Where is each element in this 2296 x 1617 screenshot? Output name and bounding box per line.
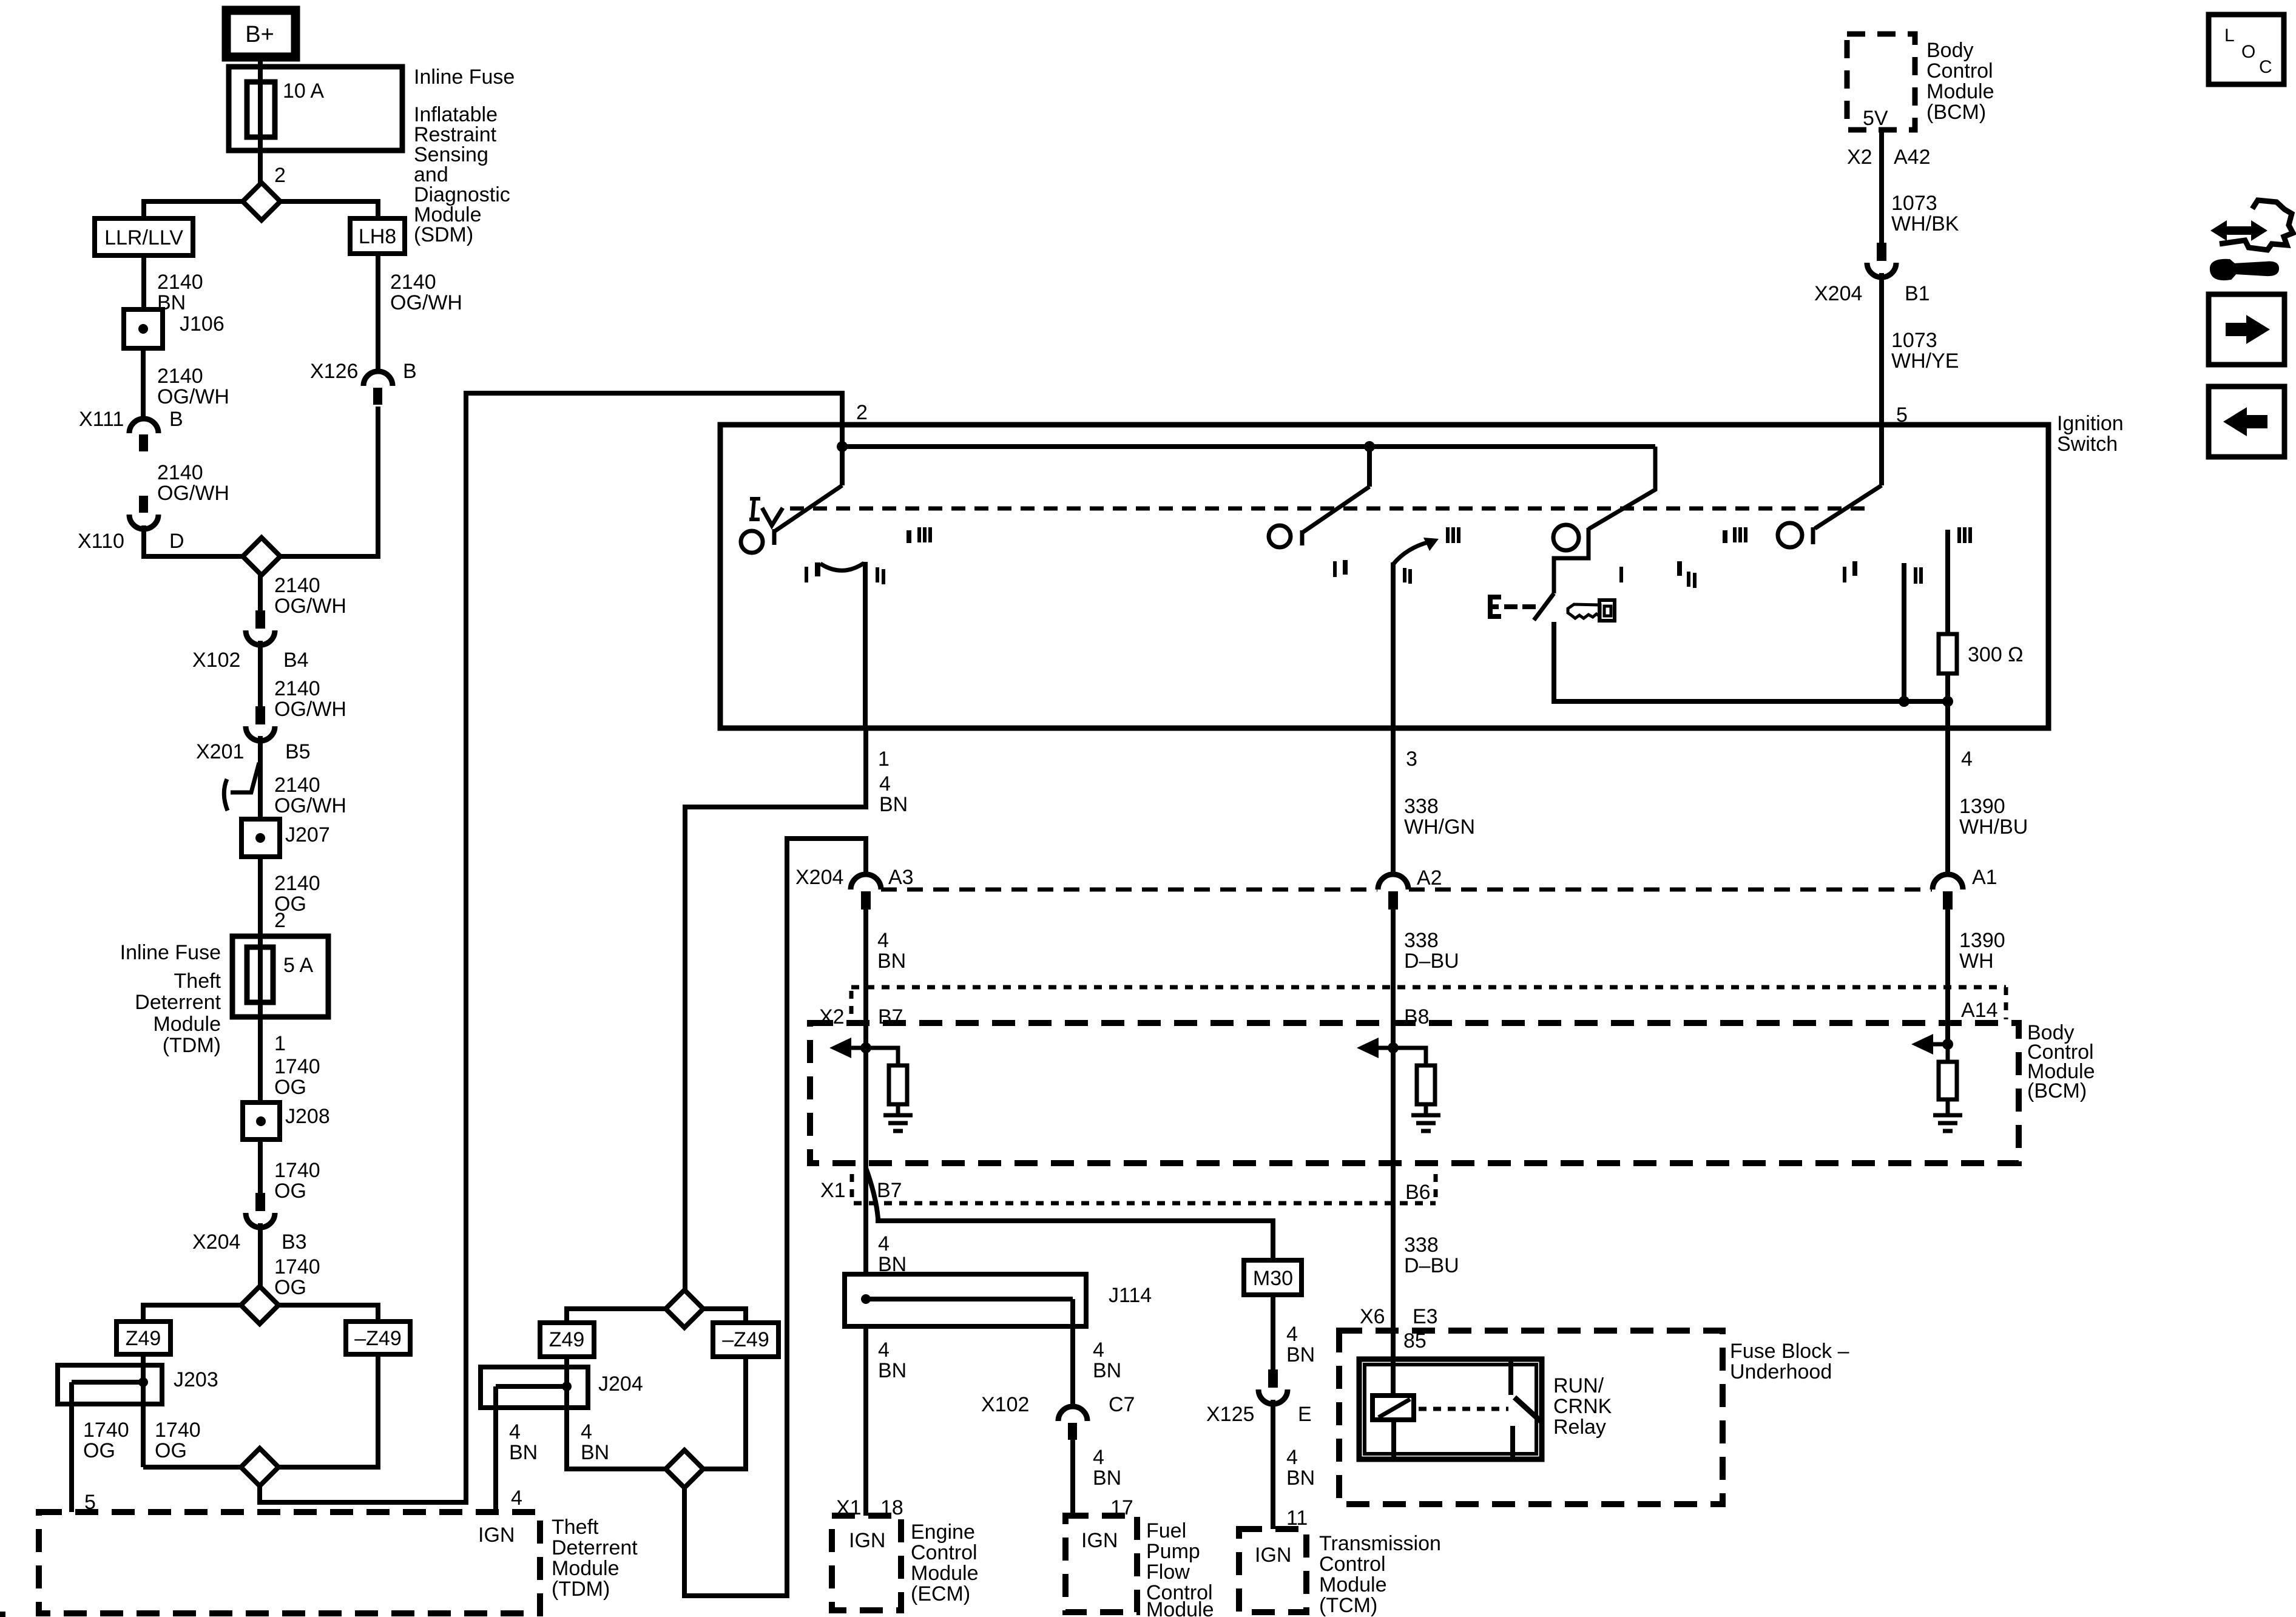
wire -Z49 to splice S4	[279, 1354, 378, 1467]
svg-text:WH/YE: WH/YE	[1891, 349, 1959, 373]
svg-text:BN: BN	[878, 1359, 907, 1382]
resistor marks I III	[1957, 527, 1972, 543]
pole 4 contact circle	[1778, 523, 1802, 547]
svg-text:(ECM): (ECM)	[911, 1582, 970, 1605]
connector line X204	[881, 888, 1932, 892]
splice J207	[241, 819, 280, 857]
label Transmission Control Module (TCM)	[1319, 1532, 1441, 1617]
label Theft Deterrent Module (TDM) fuse	[135, 970, 221, 1057]
svg-text:Deterrent: Deterrent	[135, 991, 221, 1014]
svg-text:B+: B+	[245, 22, 274, 47]
label 4 BN below A3	[877, 929, 906, 973]
pole 1 blade	[774, 447, 842, 545]
svg-text:OG/WH: OG/WH	[274, 794, 346, 817]
svg-text:X1: X1	[820, 1179, 846, 1202]
svg-text:LH8: LH8	[359, 225, 396, 248]
svg-text:J204: J204	[598, 1372, 643, 1396]
splice S6	[666, 1450, 703, 1488]
svg-text:(TDM): (TDM)	[552, 1578, 610, 1601]
svg-text:Z49: Z49	[126, 1327, 161, 1350]
pin label 2 TDM fuse	[274, 909, 286, 932]
svg-text:X201: X201	[196, 740, 244, 763]
label X110 D	[78, 530, 184, 553]
label 4 BN tap	[509, 1420, 538, 1464]
wire M30 to X125	[1271, 1295, 1275, 1369]
label X125 E	[1206, 1403, 1312, 1426]
svg-text:J207: J207	[285, 823, 330, 846]
splice S3	[241, 1286, 279, 1324]
label 338 D-BU	[1404, 929, 1459, 973]
junction pole 4 output	[1899, 696, 1909, 707]
connector X125 pin E	[1258, 1369, 1288, 1404]
svg-text:L: L	[2224, 25, 2235, 46]
label J208	[285, 1105, 330, 1128]
svg-text:OG: OG	[155, 1439, 187, 1462]
svg-text:X204: X204	[795, 866, 843, 889]
svg-text:A14: A14	[1961, 999, 1998, 1022]
label 338 D-BU relay feed	[0, 0, 1, 1]
connector X204 pin B3	[246, 1193, 275, 1227]
page mark bottom left	[0, 1612, 5, 1617]
label 338 WH/GN	[1404, 795, 1475, 839]
pin label 5	[1896, 403, 1908, 427]
svg-text:BN: BN	[1093, 1359, 1121, 1382]
connector line X2	[851, 987, 2006, 1019]
svg-text:Module: Module	[1319, 1573, 1387, 1596]
wire Z49 through J204	[567, 1357, 666, 1469]
label X204 B1	[1814, 282, 1930, 305]
label A2	[1417, 866, 1442, 890]
label 1390 WH/BU	[1959, 795, 2028, 839]
wire B+ to fuse	[258, 57, 263, 183]
label Body Control Module (BCM)	[2027, 1021, 2095, 1102]
takeout Z49	[116, 1322, 171, 1354]
switch contact below X201	[224, 763, 259, 811]
module box Fuel Pump Flow Control Module	[1065, 1516, 1137, 1612]
svg-text:OG: OG	[274, 1076, 306, 1099]
label 5 A	[283, 954, 313, 977]
svg-text:OG: OG	[274, 1180, 306, 1203]
wire pole 2 to pin 3	[1391, 562, 1396, 728]
wire J207 to TDM fuse	[258, 857, 263, 936]
pin label 2	[274, 164, 286, 187]
label IGN TCM	[1255, 1544, 1291, 1567]
splice M30 box	[1244, 1260, 1302, 1295]
label RUN/CRNK Relay	[1553, 1374, 1612, 1439]
connector X204 pin A3	[851, 874, 881, 910]
connector line X1	[852, 1174, 1436, 1203]
svg-text:1740: 1740	[274, 1159, 320, 1182]
svg-text:Module: Module	[153, 1013, 221, 1036]
BCM B7 resistor to ground	[866, 1048, 907, 1115]
icon vehicle harness	[2210, 200, 2293, 279]
label 1740 OG tap	[83, 1419, 129, 1462]
power feed node B+	[226, 10, 295, 57]
svg-text:B4: B4	[283, 649, 309, 672]
label J106	[180, 312, 225, 336]
svg-text:Body: Body	[1926, 39, 1974, 62]
pin label 3 below switch	[1406, 748, 1417, 771]
connector X201 pin B5	[246, 706, 275, 741]
label Inline Fuse (SDM)	[414, 66, 515, 246]
legend box LOC	[2209, 15, 2284, 84]
svg-text:X125: X125	[1206, 1403, 1254, 1426]
svg-text:4: 4	[878, 1338, 890, 1362]
svg-text:O: O	[2241, 42, 2255, 62]
svg-text:Relay: Relay	[1553, 1416, 1606, 1439]
svg-text:2: 2	[274, 909, 286, 932]
svg-text:E: E	[1298, 1403, 1312, 1426]
wire X102 to X201	[258, 641, 263, 706]
svg-text:B1: B1	[1905, 282, 1930, 305]
pin label 5 TDM	[84, 1491, 96, 1514]
inline fuse F 10A box	[229, 67, 402, 150]
splice S4	[241, 1448, 279, 1486]
pin label 2 ignition	[856, 401, 868, 424]
wire S5 to -Z49 second	[703, 1309, 746, 1323]
svg-text:B: B	[403, 360, 417, 383]
label 85	[1403, 1329, 1427, 1352]
label Inline Fuse TDM	[120, 941, 221, 964]
ground BCM B7	[883, 1115, 913, 1131]
option box LH8	[350, 218, 405, 254]
svg-text:1: 1	[878, 748, 890, 771]
key switch blade	[1534, 593, 1554, 620]
svg-text:Engine: Engine	[911, 1521, 975, 1544]
wire Z49 to splice S4	[143, 1465, 241, 1470]
svg-text:BN: BN	[1286, 1467, 1315, 1490]
svg-text:300 Ω: 300 Ω	[1968, 643, 2024, 666]
relay dashed link	[1419, 1407, 1508, 1411]
wire splice to LLR/LLV	[144, 201, 243, 218]
pin label 1 below switch	[878, 748, 890, 771]
svg-text:–Z49: –Z49	[354, 1327, 402, 1350]
wire S4 to ignition switch pin 2 feed	[260, 393, 842, 1502]
connector X204 pin A1	[1933, 874, 1963, 910]
pole 3 contact circle	[1553, 525, 1579, 550]
wire pole 1 to pin 1	[863, 562, 868, 728]
connector X111 pin B	[129, 419, 158, 451]
wire key switch to output rail	[1554, 622, 1948, 701]
svg-text:C7: C7	[1109, 1393, 1135, 1416]
wire S3 to -Z49	[279, 1305, 378, 1322]
key switch dashes	[1504, 604, 1536, 609]
label A14	[1961, 999, 1998, 1022]
pole 2 position marks II	[1403, 568, 1412, 584]
splice pack J203	[58, 1365, 162, 1404]
svg-text:1: 1	[274, 1032, 286, 1055]
label 1740 OG upper	[274, 1055, 320, 1099]
connector X102 pin B4	[246, 610, 275, 645]
wire J204 tap to TDM pin 4	[493, 1386, 498, 1512]
label J204	[598, 1372, 643, 1396]
ground BCM B8	[1411, 1115, 1440, 1131]
wire B7 branch to M30	[866, 1168, 1273, 1260]
wire fuse to J208	[258, 1017, 263, 1102]
takeout -Z49 second	[713, 1323, 778, 1357]
pole 4 position marks I II	[1843, 561, 1923, 584]
svg-text:Module: Module	[911, 1562, 979, 1585]
svg-text:B6: B6	[1405, 1181, 1431, 1204]
ignition switch box	[720, 425, 2048, 728]
label X201 B5	[196, 740, 311, 763]
pole 2 contact circle	[1269, 525, 1291, 547]
svg-text:4: 4	[1093, 1446, 1104, 1469]
connector X126 pin B	[363, 371, 393, 405]
wire J208 to X204 B3	[258, 1139, 263, 1193]
label 4 BN below M30	[1286, 1323, 1315, 1366]
label 2140 BN	[157, 271, 203, 314]
label IGN TDM	[478, 1524, 515, 1547]
svg-text:2140: 2140	[274, 774, 320, 797]
label J114	[1109, 1284, 1152, 1307]
svg-text:OG/WH: OG/WH	[390, 291, 462, 314]
svg-text:X110: X110	[78, 530, 124, 553]
svg-text:OG: OG	[83, 1439, 115, 1462]
wire X126 to splice S2	[280, 407, 378, 556]
svg-text:RUN/: RUN/	[1553, 1374, 1604, 1397]
position dashed line	[790, 507, 1869, 511]
wire return to X204 A3	[684, 839, 866, 1596]
label IGN fuel pump	[1081, 1529, 1118, 1552]
splice J208	[243, 1102, 280, 1139]
ground BCM A14	[1933, 1115, 1962, 1131]
label X6 E3	[1360, 1305, 1438, 1328]
wire J203 tap to TDM pin 5	[69, 1382, 74, 1512]
label Ignition Switch	[2057, 412, 2124, 456]
BCM input B7 junction	[848, 1042, 871, 1053]
svg-text:BN: BN	[509, 1441, 538, 1464]
label 2140 OG/WH right branch	[390, 271, 462, 314]
label 300 ohm	[1968, 643, 2024, 666]
svg-text:(TCM): (TCM)	[1319, 1594, 1377, 1617]
switch feed rail	[842, 444, 1655, 449]
wire splice to LH8	[280, 201, 378, 218]
BCM input A14 junction	[1930, 1039, 1953, 1050]
module box Engine Control Module (ECM)	[832, 1516, 901, 1610]
svg-text:2140: 2140	[157, 461, 203, 484]
svg-text:WH/GN: WH/GN	[1404, 815, 1475, 839]
pole 4 output wire	[1902, 563, 1906, 701]
inline fuse 5A box (TDM)	[232, 936, 328, 1017]
label X1 B7	[820, 1179, 902, 1202]
BCM input B8 junction	[1376, 1042, 1399, 1053]
label 4 BN fuel lower	[1093, 1446, 1121, 1490]
option box LLR/LLV	[95, 218, 193, 255]
connector X204 pin B1	[1867, 243, 1896, 277]
svg-text:2: 2	[274, 164, 286, 187]
svg-text:Module: Module	[1146, 1598, 1214, 1617]
svg-text:1740: 1740	[274, 1255, 320, 1278]
relay contact	[1511, 1359, 1541, 1457]
svg-text:X126: X126	[310, 360, 358, 383]
svg-text:BN: BN	[879, 793, 908, 816]
legend box arrow left	[2209, 387, 2284, 457]
svg-text:C: C	[2259, 57, 2272, 77]
svg-text:4: 4	[878, 1232, 890, 1255]
wire X204 B3 to splice S3	[258, 1223, 263, 1286]
svg-text:2140: 2140	[390, 271, 436, 294]
wire 2140 OG/WH LH8 branch upper	[376, 254, 380, 372]
label 4 BN above TCM	[1286, 1446, 1315, 1490]
wire into J207	[258, 736, 263, 819]
svg-text:4: 4	[879, 772, 891, 795]
splice S1	[243, 183, 280, 220]
svg-text:Control: Control	[1926, 59, 1993, 83]
svg-text:B7: B7	[877, 1179, 902, 1202]
svg-text:Transmission: Transmission	[1319, 1532, 1441, 1555]
svg-text:85: 85	[1403, 1329, 1427, 1352]
pole 4 position marks I III	[1723, 527, 1747, 543]
pole 4 blade	[1813, 425, 1882, 544]
svg-text:J114: J114	[1109, 1284, 1152, 1307]
svg-text:BN: BN	[581, 1441, 609, 1464]
connector X102 pin C7	[1058, 1406, 1087, 1440]
wire -Z49 second to splice S6	[703, 1357, 746, 1469]
label J203	[174, 1368, 218, 1391]
label X102 B4	[192, 649, 309, 672]
svg-text:Ignition: Ignition	[2057, 412, 2124, 435]
svg-text:2140: 2140	[157, 271, 203, 294]
label 338 D-BU lower	[1404, 1234, 1459, 1277]
pole 1 output arc	[815, 562, 864, 576]
wire 2140 BN	[141, 255, 146, 309]
svg-text:A42: A42	[1894, 146, 1931, 169]
label Fuse Block Underhood	[1730, 1340, 1849, 1383]
svg-text:A3: A3	[888, 866, 914, 889]
pin label 4 below switch	[1961, 748, 1973, 771]
svg-text:J203: J203	[174, 1368, 218, 1391]
svg-text:10 A: 10 A	[283, 79, 324, 103]
svg-text:Inline Fuse: Inline Fuse	[414, 66, 515, 89]
label E	[1488, 595, 1501, 619]
svg-text:Fuse Block –: Fuse Block –	[1730, 1340, 1849, 1363]
junction pole 1	[837, 441, 848, 452]
label 1073 WH/BK	[1891, 192, 1959, 235]
BCM input B7 arrow	[829, 1038, 851, 1058]
svg-text:A1: A1	[1972, 866, 1997, 889]
label 4 BN below A3 second	[878, 1232, 907, 1276]
svg-text:(TDM): (TDM)	[163, 1034, 221, 1057]
svg-text:2140: 2140	[157, 365, 203, 388]
label 1073 WH/YE	[1891, 329, 1959, 373]
wire pin 3 to X204 A2	[1391, 728, 1396, 875]
svg-text:Flow: Flow	[1146, 1561, 1190, 1584]
svg-text:M30: M30	[1253, 1267, 1293, 1290]
label 1390 WH	[1959, 929, 2005, 973]
svg-text:D: D	[169, 530, 184, 553]
wire S5 to Z49 second	[567, 1309, 666, 1323]
label 5V	[1863, 107, 1888, 130]
svg-text:4: 4	[877, 929, 889, 952]
svg-text:338: 338	[1404, 1234, 1439, 1257]
svg-text:IGN: IGN	[478, 1524, 515, 1547]
pole 2 output arc arrow	[1393, 538, 1439, 564]
svg-text:2140: 2140	[274, 677, 320, 700]
svg-text:OG/WH: OG/WH	[274, 595, 346, 618]
pole 2 position marks I	[1333, 560, 1348, 577]
label 17	[1110, 1496, 1133, 1519]
svg-text:IGN: IGN	[849, 1529, 885, 1552]
svg-text:1073: 1073	[1891, 329, 1937, 352]
pole 3 blade key switch	[1589, 447, 1655, 556]
svg-text:B3: B3	[282, 1230, 307, 1254]
junction pole 2	[1364, 441, 1375, 452]
svg-text:WH/BK: WH/BK	[1891, 212, 1959, 235]
label X1 18	[836, 1496, 903, 1519]
svg-text:Inline Fuse: Inline Fuse	[120, 941, 221, 964]
label IGN ECM	[849, 1529, 885, 1552]
label X2 A42	[1847, 146, 1931, 169]
BCM input A14 arrow	[1911, 1034, 1933, 1055]
svg-text:2140: 2140	[274, 574, 320, 597]
label 4 BN to ECM	[878, 1338, 907, 1382]
svg-text:1740: 1740	[83, 1419, 129, 1442]
svg-text:Module: Module	[1926, 80, 1994, 103]
svg-text:IGN: IGN	[1081, 1529, 1118, 1552]
label X126 B	[310, 360, 417, 383]
svg-text:338: 338	[1404, 795, 1439, 818]
label 10 A	[283, 79, 324, 103]
svg-text:X204: X204	[192, 1230, 240, 1254]
pole 1 position marks I II	[805, 567, 885, 584]
wire pin 1 to J204 splice network	[685, 728, 866, 1290]
svg-text:J106: J106	[180, 312, 225, 336]
wire J114 to ECM	[863, 1326, 868, 1516]
label Engine Control Module (ECM)	[911, 1521, 979, 1605]
module box Body Control Module (BCM)	[810, 1023, 2019, 1163]
svg-text:(SDM): (SDM)	[414, 223, 473, 246]
svg-text:OG/WH: OG/WH	[274, 698, 346, 721]
legend box arrow right	[2209, 294, 2284, 365]
label X204 A3	[795, 866, 914, 889]
svg-text:(BCM): (BCM)	[2027, 1079, 2087, 1102]
svg-text:2140: 2140	[274, 872, 320, 895]
svg-text:J208: J208	[285, 1105, 330, 1128]
splice S2	[243, 538, 280, 575]
svg-text:1073: 1073	[1891, 192, 1937, 215]
svg-text:Underhood: Underhood	[1730, 1360, 1832, 1383]
label Fuel Pump Flow Control Module	[1146, 1519, 1214, 1617]
label X204 B3	[192, 1230, 307, 1254]
wire S2 to X102	[258, 575, 263, 610]
svg-text:BN: BN	[1093, 1467, 1121, 1490]
connector X204 pin A2	[1378, 874, 1408, 910]
module box Transmission Control Module (TCM)	[1239, 1529, 1306, 1612]
svg-text:1740: 1740	[274, 1055, 320, 1078]
svg-text:B5: B5	[285, 740, 311, 763]
svg-text:(BCM): (BCM)	[1926, 101, 1986, 124]
label B6	[1405, 1181, 1431, 1204]
module box Fuse Block Underhood	[1339, 1331, 1723, 1504]
svg-text:4: 4	[509, 1420, 521, 1443]
label 11	[1286, 1507, 1308, 1530]
svg-text:3: 3	[1406, 748, 1417, 771]
label A1	[1972, 866, 1997, 889]
svg-text:WH: WH	[1959, 950, 1994, 973]
svg-text:338: 338	[1404, 929, 1439, 952]
svg-text:5V: 5V	[1863, 107, 1888, 130]
svg-text:2: 2	[856, 401, 868, 424]
key icon	[1568, 600, 1615, 621]
svg-text:1390: 1390	[1959, 795, 2005, 818]
relay box RUN/CRNK	[1359, 1359, 1542, 1459]
svg-text:OG/WH: OG/WH	[157, 385, 229, 408]
splice S5	[666, 1290, 703, 1328]
pole 1 contact circle	[741, 531, 763, 553]
svg-text:X2: X2	[1847, 146, 1872, 169]
junction resistor output	[1942, 696, 1953, 707]
